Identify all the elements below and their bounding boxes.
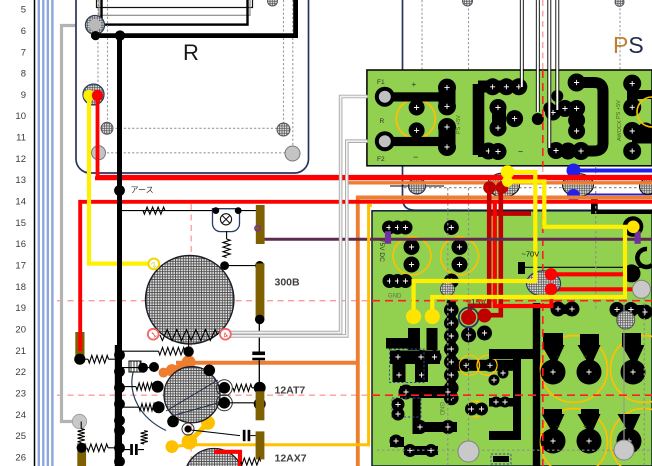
svg-text:12: 12 (15, 154, 26, 165)
svg-text:GND: GND (388, 294, 402, 300)
svg-text:13: 13 (15, 175, 26, 186)
svg-text:~: ~ (518, 147, 523, 157)
svg-text:24: 24 (15, 410, 26, 421)
svg-text:16: 16 (15, 239, 26, 250)
svg-text:75V DC: 75V DC (378, 239, 385, 262)
svg-text:12AX7: 12AX7 (275, 453, 307, 465)
svg-text:+: + (583, 354, 587, 361)
svg-text:F2: F2 (377, 156, 385, 163)
svg-text:+: + (583, 424, 587, 431)
svg-text:6: 6 (21, 26, 26, 37)
svg-text:15: 15 (15, 218, 26, 229)
svg-text:20: 20 (15, 325, 26, 336)
svg-text:−: − (556, 354, 560, 361)
svg-text:8: 8 (21, 69, 26, 80)
svg-text:18: 18 (15, 282, 26, 293)
svg-text:+: + (412, 80, 417, 89)
svg-text:11: 11 (16, 133, 26, 144)
svg-text:PS +5V: PS +5V (616, 100, 622, 119)
svg-text:17: 17 (15, 261, 26, 272)
svg-text:23: 23 (15, 389, 26, 400)
svg-text:GND: GND (438, 402, 444, 416)
svg-text:25: 25 (15, 431, 26, 442)
svg-text:AWOCX: AWOCX (617, 120, 623, 141)
svg-text:21: 21 (15, 346, 26, 357)
svg-text:~70V: ~70V (522, 250, 540, 259)
svg-text:19: 19 (15, 303, 26, 314)
svg-text:5: 5 (21, 5, 26, 16)
svg-text:PS: PS (613, 32, 644, 58)
svg-text:R: R (380, 118, 385, 125)
svg-text:PS +5V: PS +5V (456, 115, 462, 134)
svg-text:300B: 300B (275, 277, 301, 289)
svg-text:7: 7 (21, 47, 26, 58)
svg-text:22: 22 (15, 367, 26, 378)
svg-text:R: R (183, 40, 199, 65)
svg-text:14: 14 (15, 197, 26, 208)
svg-text:F1: F1 (377, 79, 385, 86)
svg-text:−: − (556, 424, 560, 431)
svg-text:26: 26 (15, 453, 26, 464)
svg-text:12AT7: 12AT7 (275, 385, 306, 397)
svg-text:アース: アース (131, 186, 154, 195)
svg-text:10: 10 (15, 111, 26, 122)
svg-text:−: − (413, 152, 418, 162)
svg-text:9: 9 (21, 90, 26, 101)
